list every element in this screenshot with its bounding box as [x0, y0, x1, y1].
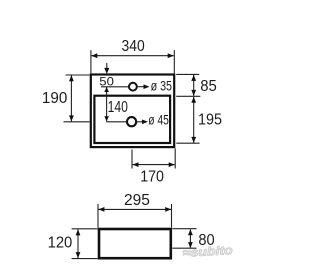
dim 295 left extension line — [97, 204, 99, 228]
dim 170 right extension line — [174, 148, 176, 168]
svg-text:ø 35: ø 35 — [151, 79, 172, 94]
dim 340 left arrow — [91, 53, 97, 58]
dim 170 left arrow — [133, 162, 139, 167]
dim 80 down arrow — [188, 242, 193, 248]
dim 140 up arrow — [104, 87, 109, 92]
dim 190 down arrow — [69, 115, 74, 121]
svg-text:ø 45: ø 45 — [148, 113, 169, 128]
dim 195 dimension line — [193, 97, 195, 143]
dim 140 dimension line (tap hole line to drain hole line) — [106, 87, 108, 121]
dim 120 dimension line — [77, 229, 79, 258]
dim 295 right arrow — [165, 207, 171, 212]
dim 120 down arrow — [76, 252, 81, 258]
drain hole circle o45 — [127, 117, 136, 126]
svg-text:195: 195 — [198, 112, 222, 129]
dim 190 bottom extension line (drain centerline level) — [64, 121, 90, 123]
drain hole centerline (from dim line to circle) — [106, 121, 127, 123]
dim 190 top extension line — [66, 74, 90, 76]
dim 120 top extension line — [72, 228, 98, 230]
dim 85 up arrow — [191, 75, 196, 81]
dim 170 dimension line — [133, 164, 175, 166]
dim 85 dimension line — [193, 75, 195, 96]
dim 140 down arrow — [104, 116, 109, 121]
dim 120 bottom extension line — [72, 258, 98, 260]
dim 80 dimension line — [189, 229, 191, 248]
right extension line (rim top level) — [176, 73, 199, 75]
dim 50 upper arrow (above rim, pointing down) — [106, 63, 108, 71]
basin body rectangle (front view) — [99, 229, 171, 258]
dim 170 right arrow — [169, 162, 175, 167]
dim 340 extension line left — [90, 50, 92, 73]
dim 195 down arrow — [191, 137, 196, 143]
dim 295 right extension line — [171, 204, 173, 228]
svg-text:190: 190 — [42, 90, 67, 107]
svg-text:120: 120 — [48, 235, 73, 252]
dim 80 up arrow — [188, 229, 193, 235]
right extension line (rim bottom level) — [176, 142, 199, 144]
tap hole circle o35 — [129, 83, 137, 91]
tap hole leader line with arrow — [137, 86, 145, 88]
right extension line (bowl top level) — [176, 95, 200, 97]
svg-text:170: 170 — [140, 168, 164, 185]
svg-text:85: 85 — [200, 78, 217, 95]
watermark subito (bottom right) — [182, 243, 233, 260]
dim 190 dimension line — [70, 75, 72, 121]
dim 340 right arrow — [168, 53, 174, 58]
inner bowl rectangle (top view) — [94, 96, 170, 143]
dim 170 left extension line (drain centerline down) — [131, 150, 133, 169]
svg-text:295: 295 — [124, 192, 150, 209]
dim 195 up arrow — [191, 97, 196, 103]
dim 120 up arrow — [76, 229, 81, 235]
dim 295 left arrow — [98, 207, 104, 212]
dim 190 up arrow — [69, 75, 74, 81]
dim 85 down arrow — [191, 90, 196, 96]
dim 340 extension line right — [173, 50, 175, 73]
dim 80 top extension line — [172, 228, 196, 230]
tap hole centerline (under label 50, to circle) — [101, 86, 129, 88]
svg-text:80: 80 — [198, 232, 214, 249]
drain hole leader line with arrow — [136, 121, 143, 123]
svg-text:340: 340 — [122, 38, 145, 55]
dim 80 bottom extension line — [172, 247, 196, 249]
dim 340 dimension line — [91, 55, 173, 57]
dim 295 dimension line — [98, 208, 171, 210]
outer rim rectangle (basin outline, top view) — [91, 75, 174, 148]
svg-text:140: 140 — [108, 99, 128, 116]
